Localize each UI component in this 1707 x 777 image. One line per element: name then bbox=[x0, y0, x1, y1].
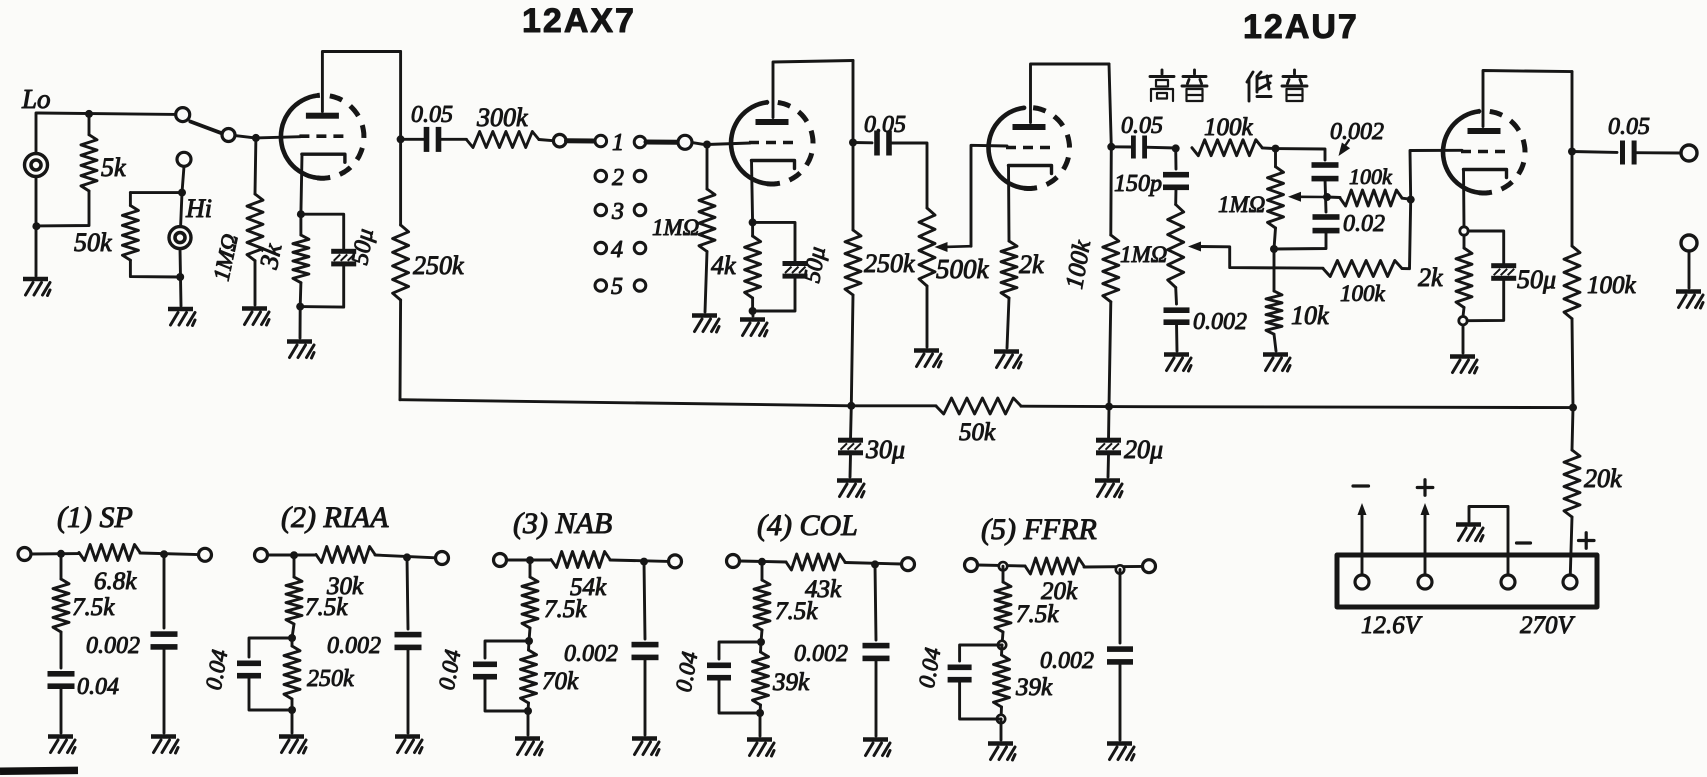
svg-text:(3) NAB: (3) NAB bbox=[513, 507, 612, 540]
wire 50u top V1a bbox=[301, 214, 344, 249]
svg-text:39k: 39k bbox=[1015, 674, 1053, 701]
wire Hi contact to jack bbox=[181, 193, 182, 227]
svg-text:1MΩ: 1MΩ bbox=[652, 215, 699, 240]
resistor 7.5k N1 bbox=[60, 554, 63, 579]
resistor 2k cathode V2b bbox=[1463, 235, 1466, 248]
ground cathode V1a bbox=[287, 339, 312, 344]
treble wiper arrow bbox=[1188, 242, 1201, 252]
wire 7.5k to 0.04 N1 bbox=[60, 632, 63, 668]
svg-text:100k: 100k bbox=[1204, 114, 1254, 141]
wire 0.04 N5 top bbox=[960, 645, 1002, 661]
wire plate node down bbox=[1109, 147, 1112, 235]
svg-text:50μ: 50μ bbox=[1517, 265, 1556, 294]
wire 50k top bbox=[130, 191, 182, 194]
capacitor 0.002 N4 bbox=[863, 643, 890, 649]
svg-text:70k: 70k bbox=[542, 668, 579, 695]
svg-text:100k: 100k bbox=[1061, 238, 1096, 291]
svg-text:Lo: Lo bbox=[21, 84, 51, 114]
wire 0.002 N4 top bbox=[875, 564, 876, 640]
wire 0.002 N2 ground bbox=[407, 648, 410, 734]
svg-text:(1) SP: (1) SP bbox=[57, 501, 133, 534]
wire feedback up bbox=[1402, 200, 1411, 269]
resistor 20k N5 bbox=[1025, 558, 1084, 574]
ground terminal right bbox=[1681, 235, 1697, 251]
wire pole to grid node V1b bbox=[692, 143, 703, 145]
svg-text:(5) FFRR: (5) FFRR bbox=[981, 513, 1097, 546]
resistor 43k bbox=[786, 554, 845, 570]
ground 10k bbox=[1263, 352, 1288, 357]
junction N4 left bbox=[758, 558, 766, 566]
svg-text:0.002: 0.002 bbox=[564, 641, 618, 667]
wire N3 top right bbox=[610, 560, 669, 561]
wire N1 in bbox=[31, 552, 79, 555]
wire 39k N5 down bbox=[1000, 707, 1003, 719]
junction N5 left bbox=[999, 562, 1007, 570]
wire 7.5k N4 down bbox=[761, 630, 762, 642]
ground N2 left bbox=[279, 734, 304, 739]
wire 5k bottom bbox=[36, 191, 89, 226]
wire bus to 50k bbox=[851, 404, 936, 407]
svg-text:50k: 50k bbox=[959, 419, 996, 446]
svg-text:39k: 39k bbox=[772, 669, 810, 696]
junction bass node bbox=[1272, 145, 1280, 153]
wire selector link left bbox=[567, 138, 595, 143]
switch contact Hi bbox=[177, 152, 191, 166]
svg-text:7.5k: 7.5k bbox=[1016, 601, 1059, 628]
wire 50u top V1b bbox=[753, 222, 795, 261]
wire plate V1b up bbox=[773, 61, 853, 118]
wire 10k ground bbox=[1274, 334, 1276, 351]
resistor 10k bbox=[1266, 291, 1282, 334]
svg-text:1MΩ: 1MΩ bbox=[1218, 192, 1265, 217]
capacitor 50u cathode V2b bbox=[1491, 263, 1516, 268]
wire 4k ground bbox=[751, 311, 754, 316]
junction N4 mid bbox=[757, 638, 765, 646]
junction Hi ground bbox=[176, 273, 184, 281]
wire cap to volume top bbox=[891, 143, 927, 208]
resistor 6.8k bbox=[79, 545, 140, 561]
ground cathode V1b bbox=[740, 317, 765, 322]
resistor 250k N2 bbox=[291, 638, 294, 646]
resistor 39k N4 bbox=[759, 642, 762, 652]
svg-text:3k: 3k bbox=[254, 241, 288, 272]
wire Hi jack bottom bbox=[180, 249, 181, 306]
svg-text:0.04: 0.04 bbox=[77, 674, 119, 700]
triode V1a 12AX7 first half bbox=[281, 96, 317, 178]
selector contact 1 left bbox=[595, 135, 607, 147]
wire 50u bottom V1b bbox=[753, 279, 795, 312]
wire plate V2b up bbox=[1483, 71, 1572, 127]
ground N4 left bbox=[747, 737, 772, 742]
junction cathode V2b bbox=[1460, 227, 1468, 235]
wire 50k bottom bbox=[130, 260, 180, 277]
wire 1M to ground bbox=[254, 261, 257, 305]
wire plate load down bbox=[399, 52, 402, 226]
wire 0.04 N2 top bbox=[249, 638, 292, 657]
wire 0.002 N3 ground bbox=[644, 658, 647, 736]
resistor 50k decoupling bbox=[936, 398, 1021, 414]
switch pole bbox=[222, 129, 235, 142]
wire 100k V2a to bus bbox=[1109, 302, 1111, 407]
terminal 12.6V plus bbox=[1418, 575, 1432, 589]
svg-text:150p: 150p bbox=[1114, 171, 1162, 197]
wire N4 in bbox=[740, 561, 787, 562]
ground N1 right bbox=[151, 734, 176, 739]
wire 0.04 N5 bottom bbox=[960, 680, 1001, 719]
resistor 3k cathode bbox=[299, 214, 302, 235]
junction N1 right bbox=[160, 550, 168, 558]
potentiometer 500k volume bbox=[919, 208, 935, 286]
svg-text:1MΩ: 1MΩ bbox=[1120, 242, 1167, 267]
wire 250k to bus bbox=[399, 300, 403, 400]
wire midpoint bbox=[1325, 179, 1326, 212]
wire 7.5k N2 down bbox=[292, 624, 294, 638]
wire N3 in bbox=[507, 559, 552, 562]
svg-text:0.002: 0.002 bbox=[1330, 119, 1384, 145]
wire 0.02 bottom bbox=[1274, 231, 1326, 249]
wire N4 ground bbox=[759, 713, 762, 736]
arrow to 0.002 bass bbox=[1342, 140, 1350, 151]
wire cathode V1a bbox=[301, 155, 302, 215]
ground N5 left bbox=[988, 741, 1013, 746]
wire Hi contact down bbox=[182, 166, 184, 192]
wire 3k bottom bbox=[299, 283, 303, 307]
wire 300k to contact bbox=[539, 140, 553, 141]
svg-text:0.04: 0.04 bbox=[434, 648, 466, 692]
wire 7.5k N3 down bbox=[529, 628, 530, 641]
wire 270V minus to ground bbox=[1469, 507, 1508, 575]
svg-text:50μ: 50μ bbox=[347, 227, 379, 267]
junction bus right bbox=[1569, 404, 1577, 412]
wire 50u top V2b bbox=[1468, 231, 1504, 263]
svg-text:12AU7: 12AU7 bbox=[1243, 8, 1359, 46]
resistor 39k N5 bbox=[1000, 645, 1003, 655]
input jack Hi bbox=[169, 227, 191, 249]
wire cap to 300k bbox=[440, 138, 466, 141]
triode V2b 12AU7 second half bbox=[1443, 111, 1479, 192]
junction 4k bottom bbox=[749, 307, 757, 315]
svg-text:270V: 270V bbox=[1520, 612, 1576, 639]
wire plate node to 250k bbox=[852, 143, 855, 231]
capacitor 0.04 N2 bbox=[237, 661, 261, 667]
resistor 100k mid bbox=[1327, 196, 1340, 199]
junction N3 left bbox=[526, 556, 534, 564]
wire 0.04 N1 ground bbox=[60, 687, 63, 734]
wire bass node right bbox=[1276, 149, 1326, 160]
junction 50k top bbox=[178, 189, 186, 197]
junction grid node V1b bbox=[703, 141, 711, 149]
capacitor 30u bbox=[838, 438, 863, 443]
capacitor 0.05 coupling V1a bbox=[424, 127, 430, 152]
svg-text:0.002: 0.002 bbox=[1040, 648, 1094, 674]
junction N5 bottom bbox=[997, 715, 1005, 723]
capacitor 0.05 tone input bbox=[1131, 136, 1136, 159]
wire N5 in bbox=[978, 565, 1026, 566]
wire grid node up bbox=[1410, 150, 1462, 199]
wire bus right bbox=[1109, 407, 1573, 408]
wire heater plus arrow bbox=[1424, 514, 1427, 575]
wire 0.04 N3 bottom bbox=[485, 677, 528, 711]
wire plate node to cap 2 bbox=[853, 141, 872, 144]
svg-text:7.5k: 7.5k bbox=[305, 594, 348, 621]
ground Lo input bbox=[23, 277, 48, 282]
output terminal N2 bbox=[436, 552, 449, 565]
ground 1M V1b bbox=[692, 313, 717, 318]
capacitor 0.002 N2 bbox=[395, 632, 422, 638]
terminal 12.6V minus bbox=[1355, 575, 1369, 589]
capacitor 0.05 coupling V1b bbox=[874, 131, 880, 156]
wire plate V1a up bbox=[322, 52, 400, 112]
resistor 100k plate V2a bbox=[1103, 235, 1119, 302]
svg-text:100k: 100k bbox=[1349, 164, 1393, 189]
svg-text:(2) RIAA: (2) RIAA bbox=[281, 501, 389, 534]
junction N2 mid bbox=[288, 634, 296, 642]
input terminal N1 bbox=[18, 548, 31, 561]
capacitor 0.002 N1 bbox=[151, 631, 178, 637]
wire 39k N4 down bbox=[759, 705, 762, 713]
switch contact Lo bbox=[176, 108, 190, 122]
wire 1M V1b ground bbox=[705, 252, 707, 313]
wire volume bottom bbox=[926, 286, 929, 347]
ground N2 right bbox=[395, 734, 420, 739]
junction plate V1b node bbox=[849, 139, 857, 147]
capacitor 0.04 N3 bbox=[473, 662, 497, 668]
junction Lo ground bbox=[32, 222, 40, 230]
wire 30u top bbox=[849, 406, 853, 440]
input terminal N4 bbox=[727, 555, 740, 568]
junction cathode V1b bbox=[749, 218, 757, 226]
ground 1M V1a bbox=[242, 306, 267, 311]
wire 20u top bbox=[1107, 407, 1110, 440]
wire 0.002 N1 top bbox=[163, 554, 166, 628]
wire N4 top right bbox=[845, 563, 902, 565]
junction 3k bottom bbox=[296, 303, 304, 311]
resistor 50k bbox=[129, 193, 132, 206]
capacitor 0.04 N1 bbox=[48, 671, 75, 677]
svg-text:7.5k: 7.5k bbox=[72, 594, 115, 621]
svg-text:5k: 5k bbox=[101, 153, 126, 182]
wire 2k ground bbox=[1007, 298, 1009, 348]
wire 100k V2b to bus bbox=[1572, 319, 1573, 408]
svg-text:2: 2 bbox=[612, 165, 624, 191]
resistor 30k bbox=[316, 547, 375, 563]
switch arm bbox=[190, 122, 221, 134]
junction plate V2a node bbox=[1107, 143, 1115, 151]
svg-text:250k: 250k bbox=[307, 666, 354, 692]
svg-text:20k: 20k bbox=[1584, 464, 1622, 493]
junction N2 bottom bbox=[288, 706, 296, 714]
svg-text:50k: 50k bbox=[74, 228, 112, 257]
junction N2 right bbox=[403, 553, 411, 561]
svg-text:7.5k: 7.5k bbox=[544, 596, 587, 623]
label teion bass kanji bbox=[1247, 70, 1307, 101]
volume wiper arrow bbox=[935, 242, 948, 252]
wire 0.04 N2 bottom bbox=[249, 676, 292, 710]
junction N1 left bbox=[57, 550, 65, 558]
svg-text:100k: 100k bbox=[1340, 281, 1386, 306]
junction bass pot bottom bbox=[1270, 245, 1278, 253]
wire plate V2a up bbox=[1031, 64, 1110, 123]
wire N2 in bbox=[268, 554, 317, 557]
selector wiper terminal bbox=[553, 134, 566, 147]
wire heater minus arrow bbox=[1361, 514, 1364, 575]
wire to ground V1a cathode bbox=[299, 307, 302, 338]
selector contact 2 right bbox=[634, 170, 646, 182]
label takaon treble kanji bbox=[1150, 70, 1207, 101]
wire Lo jack to top line bbox=[36, 113, 39, 154]
resistor 1M grid V1a bbox=[254, 138, 258, 194]
svg-text:0.05: 0.05 bbox=[1608, 114, 1650, 140]
junction 5k top bbox=[85, 110, 93, 118]
wire cathode V1b bbox=[752, 161, 753, 223]
wire N5 top right bbox=[1084, 565, 1143, 568]
ground cathode V2b bbox=[1450, 354, 1475, 359]
selector contact 4 right bbox=[634, 242, 646, 254]
wire bass bottom to 10k bbox=[1273, 249, 1276, 291]
resistor 250k plate V1b bbox=[845, 230, 861, 295]
output terminal N5 bbox=[1143, 560, 1156, 573]
resistor 300k bbox=[466, 132, 539, 148]
svg-text:0.05: 0.05 bbox=[864, 112, 906, 138]
capacitor 0.002 treble bbox=[1164, 307, 1190, 313]
capacitor 50u cathode V1b bbox=[783, 261, 808, 266]
selector contact 2 left bbox=[595, 170, 607, 182]
label plus 270V bbox=[1579, 539, 1595, 542]
svg-text:0.04: 0.04 bbox=[671, 650, 703, 694]
wire 150p to treble pot bbox=[1174, 188, 1177, 205]
selector contact 3 left bbox=[595, 204, 607, 216]
ground N5 right bbox=[1107, 741, 1132, 746]
wire plate node to tone cap bbox=[1111, 145, 1133, 148]
wire plate node to cap bbox=[401, 138, 425, 141]
wire plate node to 100k out bbox=[1571, 152, 1574, 247]
ground Hi input bbox=[168, 307, 193, 312]
potentiometer 1M treble bbox=[1168, 205, 1184, 288]
junction N5 right bbox=[1116, 565, 1124, 573]
resistor 7.5k N3 bbox=[529, 560, 532, 577]
wire treble node down bbox=[1174, 148, 1177, 169]
wire 50u bottom V1a bbox=[300, 267, 344, 308]
wire N3 ground bbox=[527, 711, 530, 735]
ground N3 right bbox=[632, 736, 657, 741]
svg-text:10k: 10k bbox=[1291, 301, 1329, 330]
input jack Lo bbox=[25, 154, 48, 177]
wire 0.002 N5 top bbox=[1119, 570, 1122, 644]
junction N3 bottom bbox=[524, 707, 532, 715]
wire bus middle bbox=[1021, 405, 1109, 408]
wire 250k V1b to bus bbox=[851, 295, 853, 406]
scan artifact bottom left bbox=[0, 767, 78, 775]
terminal board bbox=[1337, 555, 1597, 607]
wire plate V2a down bbox=[1109, 64, 1111, 147]
wire 20u ground bbox=[1107, 455, 1110, 477]
svg-text:50μ: 50μ bbox=[799, 245, 831, 285]
terminal 270V plus bbox=[1563, 575, 1577, 589]
svg-text:7.5k: 7.5k bbox=[775, 598, 818, 625]
label plus 12.6V bbox=[1417, 486, 1433, 489]
resistor 4k cathode bbox=[751, 222, 754, 236]
wire bass pot bottom bbox=[1274, 228, 1276, 249]
resistor 20k dropping bbox=[1564, 450, 1580, 517]
resistor 70k N3 bbox=[527, 641, 530, 650]
svg-text:30μ: 30μ bbox=[865, 435, 905, 464]
bass wiper arrow bbox=[1288, 192, 1301, 202]
svg-text:5: 5 bbox=[611, 274, 623, 300]
ground N3 left bbox=[515, 736, 540, 741]
ground output bbox=[1676, 289, 1701, 294]
capacitor 0.04 N5 bbox=[948, 665, 972, 671]
svg-text:2k: 2k bbox=[1019, 250, 1044, 279]
input terminal N2 bbox=[255, 549, 268, 562]
svg-text:1MΩ: 1MΩ bbox=[209, 232, 243, 283]
svg-text:250k: 250k bbox=[413, 251, 464, 280]
svg-text:6.8k: 6.8k bbox=[94, 568, 137, 595]
svg-text:20μ: 20μ bbox=[1124, 435, 1163, 464]
svg-text:3: 3 bbox=[611, 199, 624, 225]
selector contact 3 right bbox=[634, 204, 646, 216]
junction plate V2b node bbox=[1568, 148, 1576, 156]
capacitor 50u cathode V1a bbox=[331, 249, 356, 254]
ground volume bbox=[914, 348, 939, 353]
output terminal N1 bbox=[199, 548, 212, 561]
junction N3 mid bbox=[525, 637, 533, 645]
wire wiper to grid V2a bbox=[971, 145, 1007, 246]
wire plate node to out cap bbox=[1572, 150, 1617, 154]
svg-text:100k: 100k bbox=[1587, 272, 1637, 299]
svg-text:4: 4 bbox=[611, 237, 623, 263]
svg-text:(4) COL: (4) COL bbox=[757, 509, 858, 542]
capacitor 0.02 bass bbox=[1313, 214, 1340, 220]
input terminal N3 bbox=[494, 554, 507, 567]
capacitor 150p bbox=[1163, 172, 1189, 178]
triode V1b 12AX7 second half bbox=[731, 102, 767, 183]
output terminal bbox=[1681, 145, 1697, 161]
junction 2k bottom V2b bbox=[1459, 317, 1467, 325]
svg-text:0.002: 0.002 bbox=[794, 641, 848, 667]
wire N2 top right bbox=[375, 555, 436, 558]
wire B+ bus left bbox=[400, 400, 851, 406]
wire 20k to terminal bbox=[1570, 517, 1572, 575]
selector contact 5 left bbox=[595, 280, 607, 292]
wire 0.002 N5 ground bbox=[1119, 662, 1122, 740]
label minus 12.6V bbox=[1353, 484, 1369, 487]
resistor 7.5k N4 bbox=[761, 562, 764, 580]
resistor 5k bbox=[88, 114, 91, 135]
wire N1 top right bbox=[140, 553, 199, 555]
junction bus 20u bbox=[1105, 403, 1113, 411]
wire 0.002 N3 top bbox=[644, 562, 645, 639]
output terminal N4 bbox=[902, 558, 915, 571]
wire bus to 20k bbox=[1572, 408, 1573, 450]
junction plate V1a node bbox=[397, 135, 405, 143]
junction treble node bbox=[1172, 144, 1180, 152]
wire input top line bbox=[39, 113, 176, 114]
junction cathode V1a bbox=[297, 210, 305, 218]
wire grid V1a bbox=[256, 137, 301, 138]
junction grid node V2b bbox=[1407, 196, 1415, 204]
wire cathode V2a bbox=[1007, 166, 1010, 242]
wire selector link right bbox=[646, 140, 678, 145]
wire cathode V2b bbox=[1462, 170, 1465, 228]
wire 100k to bass node bbox=[1262, 146, 1275, 150]
wire tone cap to treble node bbox=[1145, 146, 1176, 150]
wire pole to grid node bbox=[235, 136, 252, 138]
ground supply bbox=[1456, 522, 1481, 527]
ground N4 right bbox=[863, 737, 888, 742]
svg-text:300k: 300k bbox=[476, 103, 528, 132]
svg-text:0.002: 0.002 bbox=[327, 633, 381, 659]
wire 0.002 N4 ground bbox=[875, 659, 878, 737]
